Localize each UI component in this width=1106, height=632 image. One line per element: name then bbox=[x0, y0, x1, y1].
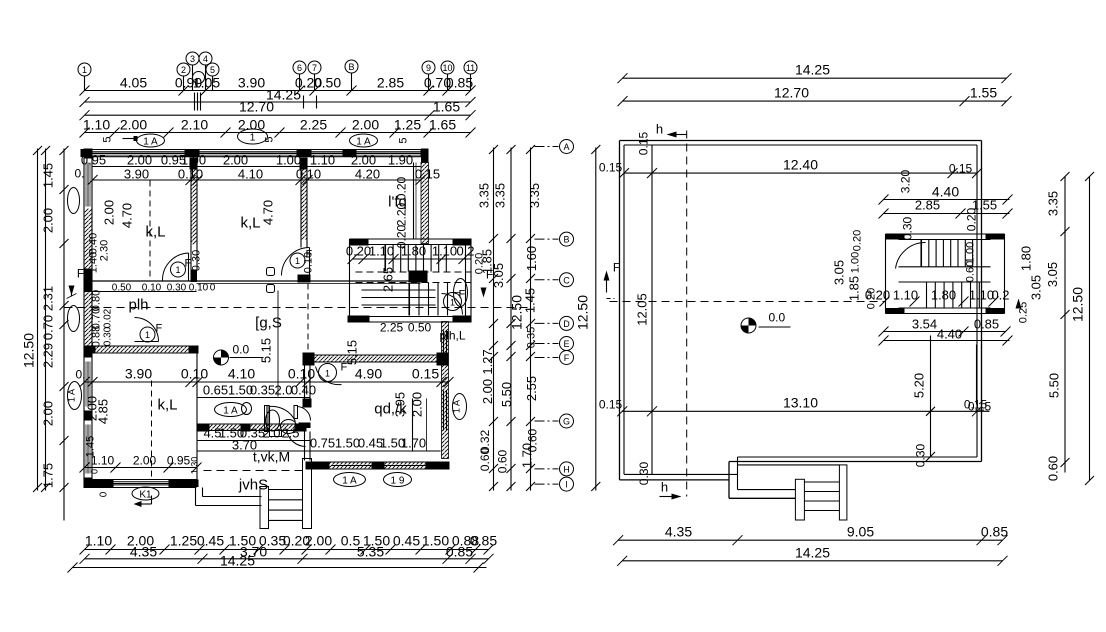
svg-text:4.70: 4.70 bbox=[261, 200, 276, 225]
svg-text:0.60: 0.60 bbox=[1046, 456, 1061, 481]
svg-text:5.50: 5.50 bbox=[1047, 373, 1062, 398]
svg-text:2.00: 2.00 bbox=[352, 117, 379, 133]
porch outline jvh bbox=[195, 488, 197, 506]
svg-text:1.27: 1.27 bbox=[480, 349, 495, 374]
svg-text:0.85: 0.85 bbox=[446, 544, 473, 560]
svg-text:2.00: 2.00 bbox=[305, 533, 332, 549]
svg-text:2.0: 2.0 bbox=[262, 426, 280, 441]
svg-text:12.50: 12.50 bbox=[575, 295, 591, 330]
right plan top dim 14.25 bbox=[623, 77, 1007, 79]
svg-text:1.60: 1.60 bbox=[524, 246, 539, 271]
svg-text:1.45: 1.45 bbox=[523, 288, 538, 313]
svg-text:4.40: 4.40 bbox=[937, 327, 962, 342]
svg-text:0.2: 0.2 bbox=[456, 244, 474, 259]
svg-text:0.30: 0.30 bbox=[914, 443, 928, 467]
svg-text:2.10: 2.10 bbox=[181, 117, 208, 133]
window tags above top wall bbox=[137, 134, 165, 147]
svg-text:2.25: 2.25 bbox=[300, 117, 327, 133]
svg-text:2.00: 2.00 bbox=[41, 208, 56, 233]
section line h right plan bbox=[686, 131, 688, 497]
svg-text:G: G bbox=[563, 417, 570, 427]
svg-text:k,L: k,L bbox=[240, 215, 260, 232]
window dim row lower kL bbox=[85, 467, 197, 469]
svg-text:h: h bbox=[656, 122, 663, 137]
stair block outline left plan bbox=[350, 238, 472, 240]
dim line row3 left plan bbox=[85, 114, 471, 116]
svg-text:0.95: 0.95 bbox=[81, 153, 106, 168]
stair treads left plan bbox=[385, 245, 387, 272]
svg-text:14.25: 14.25 bbox=[795, 62, 830, 78]
svg-text:1.25: 1.25 bbox=[394, 117, 421, 133]
svg-text:2.00: 2.00 bbox=[41, 401, 56, 426]
svg-text:3.90: 3.90 bbox=[238, 75, 265, 91]
tag K1 and arrow bottom left bbox=[132, 487, 159, 500]
svg-text:0.15: 0.15 bbox=[637, 131, 651, 155]
svg-text:0.75: 0.75 bbox=[310, 436, 335, 451]
svg-text:9: 9 bbox=[426, 63, 431, 73]
left wall left plan bbox=[83, 149, 85, 488]
svg-text:1.00: 1.00 bbox=[965, 242, 977, 263]
door D4 at wall h3 bbox=[316, 367, 342, 385]
dim line row4 left plan bbox=[85, 132, 471, 134]
svg-text:0.35: 0.35 bbox=[526, 327, 538, 348]
svg-text:5.15: 5.15 bbox=[259, 338, 274, 363]
svg-text:0.20: 0.20 bbox=[474, 253, 486, 274]
right plan dim 12.40 bbox=[624, 172, 977, 174]
svg-text:F: F bbox=[564, 353, 570, 363]
svg-text:F: F bbox=[613, 261, 620, 275]
bottom wall right section left plan bbox=[306, 461, 450, 463]
stair block outline right plan bbox=[886, 233, 1005, 235]
svg-text:0.60: 0.60 bbox=[965, 261, 977, 282]
svg-text:2.5: 2.5 bbox=[281, 426, 299, 441]
dim line row2 left plan 14.25 bbox=[85, 101, 471, 103]
stair dims left plan bbox=[353, 258, 471, 260]
svg-text:5.20: 5.20 bbox=[912, 373, 927, 398]
stair treads right plan bbox=[921, 240, 923, 267]
svg-text:4.20: 4.20 bbox=[355, 167, 380, 182]
svg-text:12.50: 12.50 bbox=[509, 295, 525, 330]
bottom dim row3 left plan bbox=[73, 567, 487, 569]
svg-text:A: A bbox=[563, 142, 569, 152]
svg-text:k,L: k,L bbox=[157, 397, 177, 414]
svg-text:0: 0 bbox=[90, 469, 100, 474]
svg-text:0.0: 0.0 bbox=[233, 343, 250, 357]
svg-text:3.05: 3.05 bbox=[1029, 275, 1044, 300]
right wall upper left plan bbox=[421, 149, 429, 163]
svg-text:3.20: 3.20 bbox=[899, 169, 913, 193]
grid bubbles row left plan bbox=[78, 63, 91, 76]
svg-text:0.20: 0.20 bbox=[852, 230, 864, 251]
right plan inner boundary bbox=[624, 144, 977, 146]
svg-text:1: 1 bbox=[175, 265, 180, 275]
svg-text:2.55: 2.55 bbox=[524, 376, 539, 401]
svg-text:11: 11 bbox=[466, 63, 475, 73]
dashed axis room kL upper bbox=[149, 181, 151, 281]
svg-text:1: 1 bbox=[453, 290, 463, 295]
svg-text:I: I bbox=[565, 480, 568, 490]
svg-text:12.40: 12.40 bbox=[783, 157, 818, 173]
bottom dim row1 left plan bbox=[85, 549, 489, 551]
svg-text:12.70: 12.70 bbox=[774, 85, 809, 101]
dim row above bath bbox=[197, 397, 311, 399]
svg-text:1 A: 1 A bbox=[356, 137, 371, 148]
stair connector lines down bbox=[976, 345, 978, 405]
svg-text:3.90: 3.90 bbox=[124, 167, 149, 182]
svg-text:0.85: 0.85 bbox=[470, 533, 497, 549]
svg-text:3.05: 3.05 bbox=[832, 260, 847, 285]
svg-text:1.00: 1.00 bbox=[276, 153, 301, 168]
svg-text:2.00: 2.00 bbox=[410, 392, 425, 417]
svg-text:0.50: 0.50 bbox=[314, 75, 341, 91]
interior wall h1 left plan bbox=[93, 280, 421, 282]
svg-text:12.50: 12.50 bbox=[1070, 287, 1086, 322]
svg-text:4: 4 bbox=[203, 54, 208, 64]
windows right wall lower bbox=[443, 331, 445, 361]
bath wall h4 bbox=[197, 423, 306, 425]
dim 5.20 right plan bbox=[930, 336, 932, 457]
svg-text:2.00: 2.00 bbox=[127, 153, 152, 168]
svg-text:10: 10 bbox=[442, 63, 452, 73]
small fixtures hall edge bbox=[267, 268, 275, 276]
svg-text:13.10: 13.10 bbox=[783, 395, 818, 411]
svg-text:3.35: 3.35 bbox=[493, 183, 508, 208]
interior wall h3 left plan bbox=[303, 353, 315, 366]
dashed axis room kL lower bbox=[151, 381, 153, 481]
svg-text:14.25: 14.25 bbox=[795, 545, 830, 561]
svg-text:0.30: 0.30 bbox=[901, 216, 915, 240]
svg-text:1: 1 bbox=[145, 330, 150, 340]
svg-text:0.15: 0.15 bbox=[964, 398, 988, 412]
door D3 at wall h2 bbox=[135, 341, 159, 343]
svg-text:12.50: 12.50 bbox=[21, 333, 37, 368]
svg-text:2.00: 2.00 bbox=[223, 153, 248, 168]
right plan right dim line B bbox=[1089, 177, 1091, 481]
dashed axis v2 lower bbox=[307, 284, 309, 353]
svg-text:2.00: 2.00 bbox=[480, 379, 495, 404]
svg-text:2.20: 2.20 bbox=[395, 202, 409, 226]
svg-text:0.10: 0.10 bbox=[142, 283, 162, 294]
interior wall v2 left plan bbox=[300, 158, 302, 248]
svg-text:0.70: 0.70 bbox=[41, 315, 56, 340]
svg-text:1.00: 1.00 bbox=[181, 153, 206, 168]
svg-text:12.05: 12.05 bbox=[635, 293, 650, 326]
svg-text:1: 1 bbox=[295, 256, 300, 266]
stair dims below right plan bbox=[884, 331, 1006, 333]
svg-text:5: 5 bbox=[210, 65, 215, 75]
interior wall h2 left plan bbox=[84, 345, 199, 347]
svg-text:0.10: 0.10 bbox=[189, 283, 209, 294]
svg-text:12.70: 12.70 bbox=[239, 99, 274, 115]
svg-text:4.05: 4.05 bbox=[120, 75, 147, 91]
bottom dim row2 left plan bbox=[85, 558, 489, 560]
dim rows bath lower bbox=[197, 440, 311, 442]
svg-text:2.30: 2.30 bbox=[99, 240, 111, 261]
svg-text:2.85: 2.85 bbox=[377, 75, 404, 91]
svg-text:1.90: 1.90 bbox=[388, 153, 413, 168]
svg-text:B: B bbox=[563, 235, 569, 245]
door D2 at wall v2 bbox=[309, 248, 311, 276]
svg-text:1.10: 1.10 bbox=[310, 153, 335, 168]
svg-text:5.35: 5.35 bbox=[357, 544, 384, 560]
svg-text:1.10: 1.10 bbox=[91, 454, 115, 468]
svg-text:F: F bbox=[486, 268, 493, 282]
svg-text:K1: K1 bbox=[139, 490, 152, 501]
bath partition v4 bbox=[266, 406, 268, 430]
svg-text:D: D bbox=[563, 319, 570, 329]
svg-text:jvhS: jvhS bbox=[238, 477, 268, 494]
svg-text:3.70: 3.70 bbox=[232, 438, 257, 453]
svg-text:0.02: 0.02 bbox=[103, 308, 114, 328]
svg-text:2.00: 2.00 bbox=[351, 153, 376, 168]
svg-text:0: 0 bbox=[210, 283, 216, 294]
grid letter bubbles right side bbox=[560, 140, 574, 154]
svg-text:5: 5 bbox=[102, 136, 114, 142]
svg-text:1: 1 bbox=[325, 369, 330, 379]
svg-text:0.10: 0.10 bbox=[181, 366, 208, 382]
svg-text:14.25: 14.25 bbox=[220, 553, 255, 569]
svg-text:1 A: 1 A bbox=[143, 137, 158, 148]
svg-text:4.70: 4.70 bbox=[120, 203, 135, 228]
level mark 0.0 right plan bbox=[741, 318, 756, 333]
svg-text:2: 2 bbox=[181, 65, 186, 75]
svg-text:0.0: 0.0 bbox=[769, 311, 786, 325]
stair arc right plan bbox=[896, 242, 926, 268]
svg-text:4.10: 4.10 bbox=[228, 366, 255, 382]
svg-text:0.45: 0.45 bbox=[393, 533, 420, 549]
dim line row1 left plan bbox=[85, 90, 471, 92]
far left chain dim line left plan bbox=[63, 149, 65, 521]
stair dims above right plan bbox=[884, 199, 1010, 201]
svg-text:2.25: 2.25 bbox=[380, 321, 404, 335]
svg-text:1.10: 1.10 bbox=[85, 533, 112, 549]
svg-text:5: 5 bbox=[398, 137, 410, 143]
svg-text:1.50: 1.50 bbox=[335, 436, 360, 451]
svg-text:F: F bbox=[156, 323, 163, 335]
svg-text:1.70: 1.70 bbox=[401, 436, 426, 451]
svg-text:1.65: 1.65 bbox=[433, 99, 460, 115]
left side tags bbox=[68, 188, 80, 214]
svg-text:0.30: 0.30 bbox=[103, 326, 114, 346]
dim row right of bath bbox=[311, 450, 441, 452]
svg-text:C: C bbox=[563, 275, 570, 285]
window tags bottom right bbox=[334, 473, 366, 487]
svg-text:1.55: 1.55 bbox=[970, 85, 997, 101]
svg-text:3.35: 3.35 bbox=[1046, 191, 1061, 216]
svg-text:1.65: 1.65 bbox=[429, 117, 456, 133]
svg-text:2.00: 2.00 bbox=[133, 454, 157, 468]
interior dim row A left plan bbox=[93, 166, 421, 168]
svg-text:k,L: k,L bbox=[145, 224, 165, 241]
svg-text:0.40: 0.40 bbox=[291, 383, 316, 398]
svg-text:0.50: 0.50 bbox=[112, 283, 132, 294]
svg-text:1: 1 bbox=[82, 65, 87, 75]
svg-text:1: 1 bbox=[250, 133, 256, 144]
svg-text:4.35: 4.35 bbox=[665, 524, 692, 540]
right plan right dim line A bbox=[1064, 177, 1066, 473]
level mark 0.0 left plan bbox=[214, 350, 229, 365]
dashed centerline left plan bbox=[65, 307, 531, 309]
svg-text:2.00: 2.00 bbox=[120, 117, 147, 133]
svg-text:0.10: 0.10 bbox=[288, 366, 315, 382]
wall v3 lower left plan bbox=[196, 353, 198, 431]
svg-text:plh: plh bbox=[128, 297, 148, 314]
svg-text:1.25: 1.25 bbox=[170, 533, 197, 549]
interior dim row B left plan bbox=[93, 179, 421, 181]
right dim lines left plan bbox=[493, 148, 495, 491]
svg-text:0.20: 0.20 bbox=[965, 207, 979, 231]
svg-text:9.05: 9.05 bbox=[847, 524, 874, 540]
exterior stair bottom left plan bbox=[260, 487, 269, 529]
right plan top dim 12.70 bbox=[623, 100, 1007, 102]
svg-text:4.90: 4.90 bbox=[355, 366, 382, 382]
door D1 at wall v1 bbox=[188, 253, 190, 281]
svg-text:0.10: 0.10 bbox=[303, 252, 315, 273]
right side tags left plan bbox=[454, 279, 468, 307]
svg-text:1 9: 1 9 bbox=[391, 476, 405, 487]
svg-text:1.10: 1.10 bbox=[969, 288, 994, 303]
svg-text:0.: 0. bbox=[75, 368, 85, 382]
svg-text:2.00: 2.00 bbox=[85, 396, 100, 421]
svg-text:E: E bbox=[563, 339, 569, 349]
svg-text:2.31: 2.31 bbox=[41, 286, 56, 311]
svg-text:1.05: 1.05 bbox=[193, 75, 220, 91]
svg-text:0.50: 0.50 bbox=[408, 321, 432, 335]
svg-text:1.00: 1.00 bbox=[850, 252, 862, 273]
svg-text:5.50: 5.50 bbox=[499, 382, 514, 407]
svg-text:0: 0 bbox=[99, 491, 110, 497]
svg-text:1.75: 1.75 bbox=[41, 463, 56, 488]
dashed line porch bbox=[204, 470, 303, 472]
svg-text:3.35: 3.35 bbox=[527, 183, 542, 208]
svg-text:B: B bbox=[348, 62, 354, 72]
bottom wall left section left plan bbox=[84, 479, 197, 481]
svg-text:2.0: 2.0 bbox=[274, 383, 292, 398]
svg-text:5.15: 5.15 bbox=[345, 340, 360, 365]
svg-text:1.45: 1.45 bbox=[41, 163, 56, 188]
interior dim row mid left plan bbox=[85, 381, 449, 383]
svg-text:2.00: 2.00 bbox=[102, 200, 117, 225]
svg-text:1.80: 1.80 bbox=[931, 288, 956, 303]
svg-text:0.30: 0.30 bbox=[637, 461, 651, 485]
dim 13.10 right plan bbox=[622, 410, 989, 412]
svg-text:3.95: 3.95 bbox=[393, 392, 408, 417]
svg-text:0.15: 0.15 bbox=[599, 161, 623, 175]
svg-text:5: 5 bbox=[264, 136, 276, 142]
dim extension line hall bbox=[277, 291, 279, 397]
svg-text:0.30: 0.30 bbox=[167, 283, 187, 294]
svg-text:3.90: 3.90 bbox=[125, 366, 152, 382]
interior wall v1 left plan bbox=[190, 158, 192, 270]
svg-text:1 A: 1 A bbox=[223, 406, 238, 417]
overall dim line 12.50 between plans bbox=[595, 148, 597, 491]
svg-text:1 A: 1 A bbox=[67, 389, 77, 402]
svg-text:0.10: 0.10 bbox=[178, 167, 203, 182]
svg-text:h: h bbox=[661, 480, 668, 495]
svg-text:2.29: 2.29 bbox=[41, 343, 56, 368]
svg-text:1 A: 1 A bbox=[452, 400, 462, 413]
svg-text:0.15: 0.15 bbox=[949, 162, 973, 176]
svg-text:3.05: 3.05 bbox=[491, 263, 506, 288]
svg-text:4.10: 4.10 bbox=[238, 167, 263, 182]
svg-text:3.35: 3.35 bbox=[477, 183, 492, 208]
svg-text:0.88: 0.88 bbox=[91, 326, 103, 347]
svg-text:1 A: 1 A bbox=[342, 476, 357, 487]
svg-text:0.: 0. bbox=[74, 167, 84, 181]
wall v5 bath-qd left plan bbox=[304, 364, 306, 408]
svg-text:3.54: 3.54 bbox=[912, 317, 937, 332]
svg-text:2.85: 2.85 bbox=[915, 198, 940, 213]
svg-text:3.05: 3.05 bbox=[1045, 262, 1060, 287]
svg-text:0.20: 0.20 bbox=[395, 224, 409, 248]
svg-text:1.10: 1.10 bbox=[369, 244, 394, 259]
svg-text:6: 6 bbox=[297, 63, 302, 73]
svg-text:0.20: 0.20 bbox=[346, 244, 371, 259]
svg-text:H: H bbox=[563, 464, 570, 474]
svg-text:0.30: 0.30 bbox=[191, 250, 203, 271]
svg-text:0.45: 0.45 bbox=[197, 533, 224, 549]
svg-text:1.80: 1.80 bbox=[1019, 246, 1034, 271]
svg-text:0.65: 0.65 bbox=[203, 383, 228, 398]
right plan outer boundary bbox=[620, 140, 982, 142]
svg-text:4.35: 4.35 bbox=[130, 544, 157, 560]
top wall left plan bbox=[84, 149, 428, 151]
svg-text:0.60: 0.60 bbox=[478, 447, 492, 471]
svg-text:[g,S: [g,S bbox=[255, 315, 282, 332]
right plan interior line 0.15 bbox=[651, 145, 653, 474]
porch stair right plan bbox=[738, 464, 840, 466]
svg-text:2.65: 2.65 bbox=[381, 267, 396, 292]
svg-text:0.15: 0.15 bbox=[599, 398, 623, 412]
right plan bottom dim row1 bbox=[618, 539, 1002, 541]
right wall lower left plan bbox=[442, 322, 449, 459]
svg-text:0.60: 0.60 bbox=[526, 428, 540, 452]
dashed centerline right plan bbox=[610, 301, 885, 303]
door D5 stair lower right bbox=[442, 294, 463, 315]
svg-text:0.60: 0.60 bbox=[496, 449, 510, 473]
svg-text:1.10: 1.10 bbox=[893, 288, 918, 303]
svg-text:0.35: 0.35 bbox=[250, 383, 275, 398]
svg-text:7: 7 bbox=[312, 63, 317, 73]
svg-text:0.85: 0.85 bbox=[974, 317, 999, 332]
svg-text:1.85: 1.85 bbox=[847, 276, 862, 301]
svg-text:0.15: 0.15 bbox=[412, 366, 439, 382]
svg-text:3: 3 bbox=[190, 54, 195, 64]
doors near bath bbox=[265, 406, 270, 432]
svg-text:0.15: 0.15 bbox=[415, 167, 440, 182]
bath fixtures bbox=[266, 410, 280, 431]
svg-text:F: F bbox=[77, 267, 84, 281]
right plan bottom dim row2 bbox=[622, 560, 1002, 562]
far left overall dim lines 12.50 bbox=[37, 149, 39, 491]
